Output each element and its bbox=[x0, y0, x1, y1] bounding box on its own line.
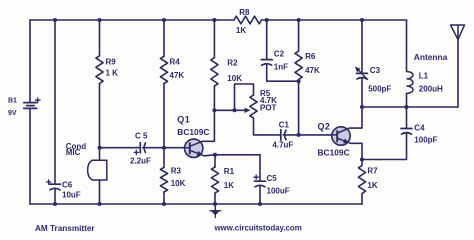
node dot: junction pot top loop bbox=[233, 108, 237, 112]
wire pot bottom lead bbox=[254, 118, 281, 135]
wire R6 top lead bbox=[298, 20, 300, 51]
svg-text:L1: L1 bbox=[419, 72, 429, 81]
wire C6 top lead bbox=[54, 20, 56, 184]
wire C1 to Q2 base bbox=[283, 134, 333, 136]
svg-text:R3: R3 bbox=[171, 167, 182, 176]
variable capacitor C3 bbox=[357, 72, 368, 74]
node dot: junction L1 / C4 / tank rail bbox=[405, 105, 409, 109]
svg-text:500pF: 500pF bbox=[368, 84, 391, 93]
svg-text:1nF: 1nF bbox=[274, 63, 288, 72]
wire Q2 emitter bbox=[351, 143, 363, 159]
wire mic bottom lead bbox=[99, 180, 101, 204]
resistor R9 bbox=[96, 56, 103, 84]
wire R3 bottom lead bbox=[163, 192, 165, 204]
capacitor C1 bbox=[280, 130, 282, 140]
transistor Q1 bbox=[185, 139, 203, 157]
wire R3 top lead bbox=[163, 148, 165, 168]
node dot: junction C3 / rail bbox=[360, 18, 364, 22]
svg-text:10K: 10K bbox=[227, 74, 242, 83]
node dot: junction C6 / ground rail bbox=[53, 202, 57, 206]
wire R7 bottom lead bbox=[361, 194, 363, 205]
svg-text:1K: 1K bbox=[367, 181, 377, 190]
wire battery top lead bbox=[29, 20, 31, 103]
wire pot top loop bbox=[235, 84, 254, 110]
resistor R1 bbox=[211, 167, 218, 193]
ground symbol bbox=[214, 204, 216, 211]
svg-text:1 K: 1 K bbox=[106, 69, 119, 78]
svg-text:C2: C2 bbox=[274, 49, 285, 58]
wire top +9V rail left segment bbox=[30, 19, 234, 21]
svg-text:100pF: 100pF bbox=[414, 136, 437, 145]
svg-text:R6: R6 bbox=[305, 52, 316, 61]
svg-text:1K: 1K bbox=[236, 26, 246, 35]
node dot: junction R1 / ground rail bbox=[213, 202, 217, 206]
svg-text:POT: POT bbox=[260, 104, 277, 113]
svg-text:B1: B1 bbox=[8, 97, 17, 104]
wire R1 top lead bbox=[214, 155, 216, 167]
svg-text:R7: R7 bbox=[367, 166, 378, 175]
resistor R6 bbox=[295, 51, 302, 80]
wire R2 bottom lead bbox=[213, 86, 215, 110]
node dot: junction C6 / +9V rail bbox=[53, 18, 57, 22]
node dot: junction R2 / +9V rail bbox=[212, 18, 216, 22]
antenna symbol bbox=[451, 25, 465, 40]
wire battery bottom lead bbox=[29, 108, 31, 204]
resistor R2 bbox=[211, 58, 218, 87]
svg-text:1K: 1K bbox=[224, 181, 234, 190]
node dot: junction R9 / +9V rail bbox=[98, 18, 102, 22]
svg-text:www.circuitstoday.com: www.circuitstoday.com bbox=[214, 223, 302, 232]
svg-text:Antenna: Antenna bbox=[414, 52, 448, 62]
wire R4 to base junction bbox=[163, 84, 165, 148]
wire Q2 collector bbox=[350, 107, 363, 128]
capacitor C4 bbox=[401, 128, 412, 130]
svg-text:BC109C: BC109C bbox=[318, 147, 350, 157]
svg-text:C5: C5 bbox=[267, 174, 278, 183]
wire Q1 emitter junction to C5 100uF bbox=[215, 154, 260, 156]
pot wiper arrow bbox=[245, 108, 250, 112]
node dot: junction Q2 emitter / R7 / C4 bbox=[360, 158, 364, 162]
wire C6 bottom lead bbox=[54, 189, 56, 204]
resistor R4 bbox=[160, 56, 167, 83]
capacitor C5 2.2uF bbox=[139, 143, 141, 153]
svg-text:47K: 47K bbox=[305, 66, 320, 75]
svg-text:Q1: Q1 bbox=[177, 115, 190, 125]
wire R4 top lead bbox=[163, 20, 165, 56]
wire mic junction to C5 bbox=[100, 147, 141, 149]
resistor R3 bbox=[160, 167, 167, 192]
wire C4 top lead bbox=[406, 107, 408, 129]
node dot: node mic / C5 coupling bbox=[98, 146, 102, 150]
svg-text:100uF: 100uF bbox=[267, 187, 290, 196]
wire bottom ground rail bbox=[30, 203, 362, 205]
svg-text:AM Transmitter: AM Transmitter bbox=[35, 224, 95, 233]
node dot: junction Q1 collector / R2 / wiper bbox=[212, 108, 216, 112]
svg-text:C 5: C 5 bbox=[135, 132, 148, 141]
wire collector junction to pot wiper bbox=[214, 109, 245, 111]
capacitor C6 bbox=[50, 183, 61, 185]
wire C2 bottom lead bbox=[267, 64, 299, 81]
svg-text:C4: C4 bbox=[414, 124, 425, 133]
inductor L1 bbox=[407, 72, 414, 94]
node dot: junction Q1 base / R4 / R3 bbox=[162, 146, 166, 150]
wire R9 to mic junction bbox=[99, 84, 101, 161]
wire oscillator output rail bbox=[362, 106, 458, 108]
C5 2.2uF plus sign bbox=[134, 151, 138, 153]
node dot: junction R4 / +9V rail bbox=[162, 18, 166, 22]
node dot: junction C5 / ground rail bbox=[258, 202, 262, 206]
node dot: junction C1 / R6 / Q2 base bbox=[297, 133, 301, 137]
svg-text:C1: C1 bbox=[279, 121, 290, 130]
battery B1 bbox=[24, 102, 37, 104]
resistor R8 bbox=[234, 16, 262, 24]
svg-text:R4: R4 bbox=[170, 58, 181, 67]
svg-text:R8: R8 bbox=[239, 8, 250, 17]
wire R9 top lead bbox=[99, 20, 101, 56]
wire C3 bottom lead bbox=[361, 78, 363, 107]
capacitor C5 100uF bbox=[255, 180, 266, 182]
node dot: junction C2 / R8 output bbox=[265, 18, 269, 22]
node dot: junction R6 / rail bbox=[297, 18, 301, 22]
svg-text:10K: 10K bbox=[171, 179, 186, 188]
wire R6 bottom lead bbox=[298, 80, 300, 135]
svg-text:4.7uF: 4.7uF bbox=[272, 141, 293, 150]
svg-text:R9: R9 bbox=[106, 58, 117, 67]
wire C3 top lead bbox=[361, 20, 363, 73]
node dot: junction C2 / R6 bottom bbox=[297, 79, 301, 83]
wire C4 bottom lead bbox=[362, 133, 407, 160]
node dot: junction R3 / ground rail bbox=[162, 202, 166, 206]
transistor Q2 bbox=[332, 127, 350, 145]
svg-text:R1: R1 bbox=[224, 167, 235, 176]
svg-text:Q2: Q2 bbox=[318, 122, 331, 132]
wire L1 top lead bbox=[406, 20, 408, 72]
wire antenna lead bbox=[457, 40, 459, 108]
wire C5 100uF top lead bbox=[259, 155, 261, 181]
node dot: junction mic / ground rail bbox=[98, 202, 102, 206]
svg-text:2.2uF: 2.2uF bbox=[130, 157, 151, 166]
wire Q1 collector bbox=[202, 110, 214, 141]
wire R1 bottom lead bbox=[214, 193, 216, 204]
svg-text:R2: R2 bbox=[227, 59, 238, 68]
resistor R7 bbox=[358, 166, 365, 194]
battery plus sign bbox=[35, 99, 40, 101]
node dot: junction C3 / tank rail bbox=[360, 105, 364, 109]
wire C5 100uF bottom lead bbox=[259, 186, 261, 204]
wire L1 bottom lead bbox=[406, 93, 408, 107]
svg-text:C6: C6 bbox=[62, 180, 73, 189]
condenser microphone bbox=[88, 160, 107, 180]
svg-text:C3: C3 bbox=[370, 66, 381, 75]
C6 plus sign bbox=[46, 181, 50, 183]
wire R2 top lead bbox=[213, 20, 215, 58]
svg-text:9V: 9V bbox=[8, 110, 17, 117]
svg-text:10uF: 10uF bbox=[62, 191, 81, 200]
wire C2 top lead bbox=[266, 20, 268, 60]
node dot: junction Q1 emitter / R1 / C5 bbox=[213, 153, 217, 157]
svg-text:47K: 47K bbox=[170, 71, 185, 80]
capacitor C2 bbox=[261, 59, 272, 61]
potentiometer R5 bbox=[250, 95, 257, 118]
wire R7 top lead bbox=[361, 160, 363, 166]
wire C5 to Q1 base junction bbox=[143, 147, 164, 149]
wire top rail right segment bbox=[262, 19, 407, 21]
svg-text:MIC: MIC bbox=[66, 148, 81, 157]
wire Q1 emitter to junction bbox=[204, 155, 215, 156]
C5 100uF plus sign bbox=[254, 176, 258, 178]
svg-text:200uH: 200uH bbox=[419, 85, 443, 94]
wire Q1 base lead bbox=[164, 147, 186, 149]
svg-text:BC109C: BC109C bbox=[177, 127, 209, 137]
